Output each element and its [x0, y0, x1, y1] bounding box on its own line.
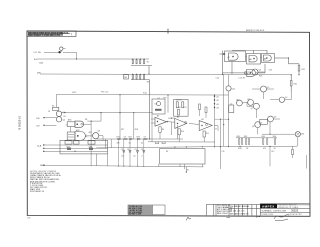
- svg-text:R22: R22: [129, 136, 132, 138]
- svg-text:Q11: Q11: [247, 99, 250, 101]
- svg-text:R7: R7: [185, 107, 187, 109]
- svg-text:.01: .01: [133, 156, 136, 158]
- svg-text:A4: A4: [217, 107, 219, 110]
- svg-text:30523 ASSY 01: 30523 ASSY 01: [30, 190, 45, 193]
- svg-text:.01 1/64 .005 1 30: .01 1/64 .005 1 30: [230, 210, 245, 212]
- svg-text:A5: A5: [157, 114, 159, 117]
- svg-text:R18: R18: [135, 129, 138, 131]
- svg-text:A8: A8: [250, 58, 252, 61]
- svg-text:30523: 30523: [291, 209, 299, 213]
- svg-text:R26: R26: [259, 76, 262, 78]
- svg-text:C1: C1: [66, 125, 68, 127]
- svg-text:C12: C12: [271, 151, 274, 153]
- svg-text:4K7: 4K7: [89, 132, 92, 134]
- svg-text:R32: R32: [294, 84, 297, 86]
- svg-text:C6: C6: [141, 149, 143, 151]
- svg-text:AMPEX 1243-02-8: AMPEX 1243-02-8: [246, 29, 265, 32]
- svg-text:CR2: CR2: [89, 147, 93, 149]
- svg-text:R43: R43: [262, 136, 265, 138]
- svg-text:A1: A1: [217, 95, 219, 98]
- svg-text:A7: A7: [228, 56, 230, 59]
- svg-text:R4 R5: R4 R5: [176, 99, 183, 101]
- svg-text:470: 470: [263, 148, 266, 150]
- svg-text:Q9: Q9: [252, 126, 254, 128]
- svg-text:R9: R9: [162, 129, 164, 131]
- svg-text:K1: K1: [155, 104, 157, 106]
- svg-text:C8: C8: [124, 136, 126, 138]
- svg-text:CR1: CR1: [66, 147, 70, 149]
- svg-text:R31: R31: [302, 69, 305, 71]
- svg-text:TOL FRA DEC ANG EA: TOL FRA DEC ANG EA: [230, 205, 250, 208]
- svg-text:C9: C9: [144, 136, 146, 138]
- svg-text:C7: C7: [215, 129, 217, 131]
- svg-text:22: 22: [141, 143, 143, 145]
- svg-text:Q13: Q13: [232, 88, 235, 90]
- svg-text:Q5: Q5: [267, 87, 269, 89]
- svg-text:AR1: AR1: [68, 119, 72, 122]
- svg-text:GND: GND: [40, 165, 45, 167]
- svg-text:D SIZE CODE: D SIZE CODE: [262, 214, 274, 216]
- svg-text:C11: C11: [222, 151, 225, 153]
- svg-text:C5: C5: [135, 149, 137, 151]
- svg-text:REDWOOD CITY CALIF: REDWOOD CITY CALIF: [279, 206, 300, 209]
- svg-text:Q7: Q7: [251, 108, 253, 110]
- svg-text:C15 R2: C15 R2: [239, 77, 247, 79]
- svg-text:A9: A9: [264, 58, 266, 61]
- svg-text:R2: R2: [147, 82, 149, 84]
- svg-text:T1: T1: [261, 122, 263, 124]
- svg-text:Q2: Q2: [63, 119, 65, 121]
- svg-text:AMPEX: AMPEX: [262, 204, 275, 208]
- svg-text:R6: R6: [179, 107, 181, 109]
- svg-text:28V: 28V: [37, 72, 41, 74]
- svg-text:R3: R3: [52, 106, 54, 108]
- svg-text:R5: R5: [64, 116, 66, 118]
- svg-text:B 30523-01: B 30523-01: [18, 116, 22, 130]
- svg-text:DS1: DS1: [301, 134, 305, 136]
- svg-text:R17: R17: [121, 129, 124, 131]
- svg-text:A2: A2: [217, 99, 219, 102]
- svg-text:Q4: Q4: [259, 70, 261, 72]
- svg-text:J2-A: J2-A: [37, 144, 42, 147]
- svg-text:R10: R10: [181, 131, 184, 133]
- svg-text:A7: A7: [202, 118, 204, 121]
- svg-text:1 2 3 4 5 6 7 8 9: 1 2 3 4 5 6 7 8 9: [289, 214, 302, 216]
- svg-text:R23: R23: [137, 136, 140, 138]
- svg-text:AR2: AR2: [76, 129, 80, 132]
- svg-text:NEXT ASSY USED ON: NEXT ASSY USED ON: [230, 213, 249, 216]
- svg-text:C3: C3: [121, 149, 123, 151]
- svg-text:MFG 1-20-64: MFG 1-20-64: [217, 213, 228, 215]
- svg-text:C18: C18: [269, 70, 272, 72]
- svg-text:C2: C2: [230, 104, 232, 106]
- svg-text:A10: A10: [247, 73, 250, 76]
- svg-text:Q8: Q8: [274, 116, 276, 118]
- svg-text:Q10: Q10: [236, 100, 239, 102]
- svg-text:470: 470: [117, 143, 120, 145]
- svg-text:K3: K3: [166, 151, 168, 153]
- svg-text:TP1 C22: TP1 C22: [101, 92, 110, 94]
- svg-text:Q6: Q6: [285, 97, 287, 99]
- svg-text:R6: R6: [85, 119, 87, 121]
- svg-text:C4: C4: [127, 149, 129, 151]
- svg-text:SCHEMATIC, CONTROL UNIT: SCHEMATIC, CONTROL UNIT: [262, 209, 288, 212]
- svg-text:.1: .1: [141, 156, 143, 158]
- svg-text:R21: R21: [117, 136, 120, 138]
- svg-text:Q3: Q3: [98, 131, 100, 133]
- svg-text:R42: R42: [244, 136, 247, 138]
- svg-text:R41: R41: [237, 136, 240, 138]
- svg-text:R44: R44: [273, 136, 276, 138]
- svg-text:.01: .01: [121, 156, 124, 158]
- svg-text:A3: A3: [217, 103, 219, 106]
- svg-text:R11: R11: [206, 133, 209, 135]
- svg-text:A6: A6: [177, 116, 179, 119]
- svg-text:K2: K2: [74, 151, 76, 153]
- svg-text:R1: R1: [147, 62, 149, 64]
- svg-text:FL1 2A: FL1 2A: [34, 51, 42, 54]
- svg-text:E1: E1: [187, 170, 189, 172]
